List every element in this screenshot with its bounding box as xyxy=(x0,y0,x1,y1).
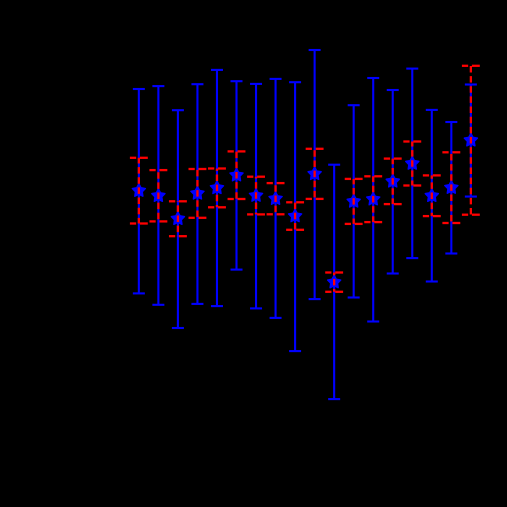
blue error bar, point 1 xyxy=(133,89,145,293)
blue error bar, point 2 xyxy=(152,86,164,305)
blue error bar, point 3 xyxy=(172,110,184,328)
red dashed error bar, point 9 xyxy=(286,202,304,230)
red dashed error bar, point 1 xyxy=(130,158,148,224)
red dashed error bar, point 3 xyxy=(169,201,187,236)
blue error bar, point 9 xyxy=(289,82,301,351)
blue error bar, point 18 xyxy=(465,85,477,197)
blue star marker, point 7 xyxy=(249,189,262,201)
red dashed error bar, point 13 xyxy=(364,176,382,222)
blue star marker, point 1 xyxy=(132,184,145,196)
red dashed error bar, point 6 xyxy=(228,151,246,199)
blue error bar, point 11 xyxy=(328,165,340,399)
blue star marker, point 5 xyxy=(210,181,223,193)
blue star marker, point 11 xyxy=(328,275,341,287)
blue star marker, point 6 xyxy=(230,168,243,180)
red dashed error bar, point 14 xyxy=(384,159,402,205)
blue star marker, point 10 xyxy=(308,167,321,179)
blue star marker, point 8 xyxy=(269,192,282,204)
red dashed error bar, point 5 xyxy=(208,169,226,208)
red dashed error bar, point 7 xyxy=(247,177,265,215)
red dashed error bar, point 4 xyxy=(188,169,206,218)
blue error bar, point 6 xyxy=(231,81,243,269)
blue star marker, point 17 xyxy=(445,181,458,193)
blue error bar, point 16 xyxy=(426,110,438,282)
blue star marker, point 14 xyxy=(386,174,399,186)
blue star marker, point 9 xyxy=(289,209,302,221)
blue error bar, point 17 xyxy=(445,122,457,254)
blue error bar, point 5 xyxy=(211,70,223,306)
red dashed error bar, point 12 xyxy=(345,179,363,224)
blue star marker, point 13 xyxy=(367,192,380,204)
blue error bar, point 10 xyxy=(309,50,321,299)
red dashed error bar, point 16 xyxy=(423,175,441,216)
red dashed error bar, point 11 xyxy=(325,273,343,292)
blue star marker, point 18 xyxy=(464,133,477,145)
blue error bar, point 15 xyxy=(406,69,418,259)
red dashed error bar, point 8 xyxy=(267,183,285,214)
red dashed error bar, point 18 xyxy=(462,66,480,215)
red dashed error bar, point 10 xyxy=(306,149,324,199)
red dashed error bar, point 17 xyxy=(442,152,460,223)
red dashed error bar, point 2 xyxy=(149,170,167,221)
blue error bar, point 13 xyxy=(367,78,379,322)
blue star marker, point 12 xyxy=(347,195,360,207)
blue error bar, point 7 xyxy=(250,84,262,309)
blue error bar, point 14 xyxy=(387,90,399,274)
blue error bar, point 12 xyxy=(348,105,360,297)
blue error bar, point 8 xyxy=(270,79,282,318)
blue star marker, point 4 xyxy=(191,187,204,199)
blue star marker, point 15 xyxy=(406,157,419,169)
blue star marker, point 16 xyxy=(425,189,438,201)
red dashed error bar, point 15 xyxy=(403,142,421,186)
blue error bar, point 4 xyxy=(191,84,203,304)
blue star marker, point 2 xyxy=(152,189,165,201)
blue star marker, point 3 xyxy=(171,212,184,224)
